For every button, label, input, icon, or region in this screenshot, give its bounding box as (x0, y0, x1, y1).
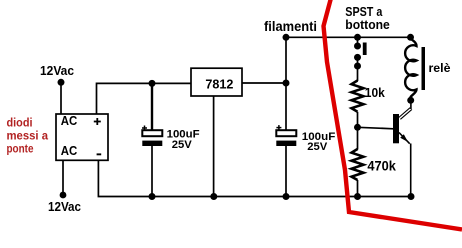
node 12Vac top terminal (58, 79, 65, 86)
svg-text:filamenti: filamenti (264, 18, 317, 34)
wire emitter to ground bus (410, 144, 412, 197)
wire red annotation line (324, 0, 462, 230)
node SPST top bus (354, 34, 361, 41)
wire input bus to 7812 (97, 83, 192, 114)
wire 7812 output (242, 82, 286, 84)
node filamenti (283, 34, 290, 41)
wire 7812 ground pin (213, 96, 215, 197)
wire C1 branch lower (151, 146, 153, 197)
regulator U1 7812 (191, 68, 242, 96)
wire bridge minus to ground bus (98, 160, 411, 196)
wire C1 branch upper (151, 83, 153, 130)
svg-text:7812: 7812 (205, 77, 233, 91)
wire base node to R2 (357, 127, 359, 149)
capacitor C1 100uF (142, 127, 147, 129)
transistor Q1 collector double line (399, 108, 410, 118)
svg-text:12Vac: 12Vac (40, 63, 74, 78)
wire filamenti vertical (285, 37, 287, 130)
svg-text:bottone: bottone (345, 17, 390, 32)
wire collector stub (410, 100, 412, 109)
resistor R2 470k (352, 149, 364, 180)
svg-text:25V: 25V (172, 139, 193, 151)
transistor Q1 emitter (399, 133, 410, 144)
node C2 ground junction (283, 193, 290, 200)
relay coil (405, 39, 416, 101)
node emitter ground junction (408, 193, 415, 200)
node 12Vac bottom terminal (60, 192, 67, 199)
wire R1 to base node (357, 112, 359, 128)
node C2 top junction (283, 80, 290, 87)
wire base node to transistor (358, 127, 394, 129)
node C1 top junction (149, 80, 156, 87)
relay core bar (422, 47, 426, 90)
pin label - (97, 153, 102, 155)
svg-text:470k: 470k (367, 159, 396, 174)
transistor Q1 base bar (393, 114, 399, 143)
resistor R1 10k (352, 81, 364, 112)
pin label + (94, 121, 101, 123)
svg-text:relè: relè (429, 63, 451, 75)
node C1 ground junction (149, 193, 156, 200)
svg-text:10k: 10k (365, 85, 386, 100)
node R2 ground junction (354, 193, 361, 200)
wire R2 to ground bus (357, 180, 359, 197)
svg-text:AC: AC (61, 113, 78, 128)
wire top bus (286, 36, 411, 38)
switch SPST pushbutton (357, 37, 359, 46)
node base junction (354, 124, 361, 131)
capacitor C2 100uF (276, 127, 281, 129)
svg-text:25V: 25V (307, 141, 328, 153)
svg-text:diodi: diodi (7, 115, 33, 129)
wire SPST to R1 (357, 66, 359, 81)
svg-text:ponte: ponte (7, 141, 34, 155)
node relay bottom / collector (407, 97, 414, 104)
wire 12Vac top to bridge (60, 82, 62, 114)
bridge rectifier (56, 114, 108, 160)
wire bridge bottom-left to 12Vac bottom (62, 160, 64, 195)
node relay top (407, 34, 414, 41)
svg-text:12Vac: 12Vac (48, 199, 81, 214)
svg-text:messi a: messi a (7, 128, 49, 142)
node 7812 ground junction (210, 193, 217, 200)
svg-text:AC: AC (61, 143, 78, 158)
